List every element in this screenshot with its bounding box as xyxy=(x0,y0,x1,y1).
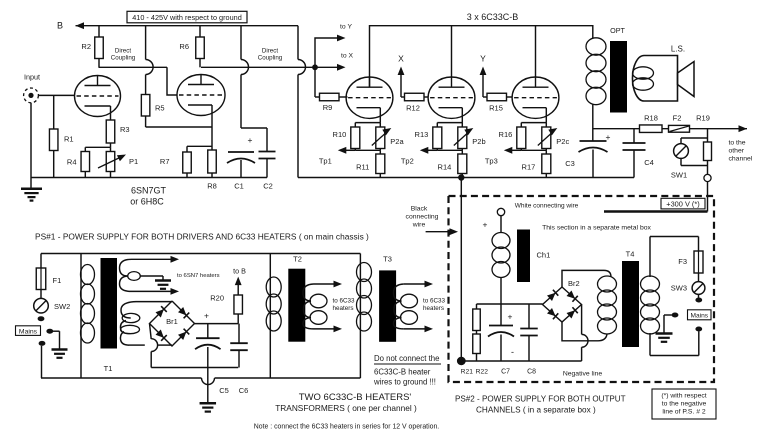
svg-text:SW2: SW2 xyxy=(54,302,70,311)
wire output feed rail xyxy=(298,177,634,179)
wire C5 to chassis ground xyxy=(207,368,209,404)
svg-text:P1: P1 xyxy=(129,157,138,166)
test point arrow Tp3 xyxy=(485,147,521,166)
tube U1 6C33C-B xyxy=(346,77,393,118)
resistor R4 xyxy=(67,152,90,178)
svg-text:3 x 6C33C-B: 3 x 6C33C-B xyxy=(467,12,519,22)
svg-text:Direct: Direct xyxy=(115,48,131,55)
svg-text:R19: R19 xyxy=(696,114,710,123)
transformer T3 core xyxy=(379,255,396,342)
svg-text:F3: F3 xyxy=(678,257,687,266)
wire B+ right drop to feed rail with hop xyxy=(298,26,305,178)
svg-text:White connecting wire: White connecting wire xyxy=(515,203,579,210)
resistor R1 xyxy=(49,95,73,177)
node junction feed/PS2 rail xyxy=(458,174,464,180)
transformer T3 primary xyxy=(357,254,372,379)
svg-text:R21: R21 xyxy=(461,368,474,375)
svg-text:R9: R9 xyxy=(323,103,333,112)
svg-text:R20: R20 xyxy=(210,294,224,303)
svg-text:Input: Input xyxy=(24,73,40,82)
capacitor C2 xyxy=(241,128,276,190)
svg-text:C5: C5 xyxy=(219,386,229,395)
svg-text:R10: R10 xyxy=(333,130,347,139)
fuse F1 xyxy=(36,254,61,290)
transformer T2 primary xyxy=(266,254,281,379)
label to the other channel xyxy=(729,140,753,163)
svg-text:C2: C2 xyxy=(263,181,273,190)
terminal +300V circle xyxy=(704,174,711,181)
svg-text:R16: R16 xyxy=(499,130,513,139)
switch SW2 xyxy=(34,290,71,314)
dashed enclosure PS2 box xyxy=(449,196,715,382)
svg-text:to the negative: to the negative xyxy=(662,401,707,408)
svg-text:Coupling: Coupling xyxy=(258,55,283,62)
label Mains box PS1 xyxy=(16,326,41,336)
svg-text:R6: R6 xyxy=(179,42,189,51)
svg-text:R8: R8 xyxy=(207,181,217,190)
resistor R14 xyxy=(438,150,467,177)
terminal mains L1 PS2 xyxy=(695,294,702,302)
svg-text:410 - 425V with respect to gro: 410 - 425V with respect to ground xyxy=(132,13,242,22)
cathode network wires U1 xyxy=(355,108,380,151)
svg-text:R7: R7 xyxy=(160,157,170,166)
svg-text:R4: R4 xyxy=(67,158,77,167)
svg-text:Br1: Br1 xyxy=(166,317,178,326)
capacitor C1 xyxy=(227,135,255,190)
svg-text:Tp1: Tp1 xyxy=(319,157,332,166)
label PS#2 title xyxy=(455,394,626,414)
resistor R12 xyxy=(401,93,429,112)
label box +300V xyxy=(661,198,705,209)
transformer T4 primary coil xyxy=(641,237,660,356)
svg-text:R3: R3 xyxy=(120,125,130,134)
svg-text:Ch1: Ch1 xyxy=(537,251,551,260)
svg-text:to 6C33: to 6C33 xyxy=(423,298,446,305)
svg-text:TWO 6C33C-B HEATERS': TWO 6C33C-B HEATERS' xyxy=(299,392,412,403)
transformer T2 core xyxy=(288,255,305,342)
switch SW3 xyxy=(671,273,705,294)
svg-text:Tp2: Tp2 xyxy=(401,157,414,166)
svg-text:SW1: SW1 xyxy=(671,171,687,180)
loudspeaker L.S. xyxy=(632,45,694,102)
inductor Ch1 choke xyxy=(492,216,550,326)
svg-text:T4: T4 xyxy=(626,250,635,259)
svg-text:to 6C33: to 6C33 xyxy=(333,298,356,305)
svg-text:R12: R12 xyxy=(406,104,420,113)
wire V2 plate drive line xyxy=(201,66,314,68)
wire PS1 negative bar xyxy=(151,367,238,369)
svg-text:R2: R2 xyxy=(81,42,91,51)
svg-text:OPT: OPT xyxy=(610,26,625,35)
svg-text:wires to ground !!!: wires to ground !!! xyxy=(373,378,436,387)
wire B+ drop to R5 with hop xyxy=(146,26,153,94)
resistor R2 xyxy=(81,26,103,68)
svg-text:to B: to B xyxy=(233,267,246,276)
svg-text:TRANSFORMERS ( one per channel: TRANSFORMERS ( one per channel ) xyxy=(275,403,417,413)
svg-text:F2: F2 xyxy=(673,114,682,123)
ground symbol T1 center tap xyxy=(140,276,171,289)
svg-text:F1: F1 xyxy=(53,276,62,285)
wire Br2 AC top to T4 xyxy=(562,270,611,287)
svg-text:to 6SN7 heaters: to 6SN7 heaters xyxy=(177,273,220,279)
tube V2 6SN7 triode B xyxy=(177,75,225,116)
svg-text:R13: R13 xyxy=(415,130,429,139)
svg-text:CHANNELS ( in a separate box ): CHANNELS ( in a separate box ) xyxy=(476,405,596,414)
svg-text:Mains: Mains xyxy=(691,313,709,320)
resistor R22 xyxy=(473,331,488,376)
terminal mains L2 PS1 xyxy=(39,341,46,378)
test point arrow Tp2 xyxy=(401,147,437,166)
svg-text:SW3: SW3 xyxy=(671,284,687,293)
inductor Ch1 core xyxy=(517,230,530,283)
wire +300V white lead xyxy=(604,182,708,212)
cathode network wires U2 xyxy=(437,108,462,151)
svg-text:+: + xyxy=(483,220,488,230)
potentiometer P2a xyxy=(372,127,405,149)
svg-text:C1: C1 xyxy=(234,181,244,190)
wire B+ drop to C1 with hop xyxy=(241,26,248,128)
svg-text:P2c: P2c xyxy=(556,137,569,146)
resistor R6 xyxy=(179,26,204,68)
transformer OPT primary coil xyxy=(586,38,606,141)
potentiometer P2b xyxy=(454,127,486,149)
wire negative riser to Br2 with hop xyxy=(582,305,588,362)
svg-text:-: - xyxy=(511,347,514,357)
wire R3 to R4/P1 junction xyxy=(85,147,110,151)
input jack J1 xyxy=(24,73,40,103)
rectifier bridge Br2 xyxy=(543,279,582,322)
svg-text:This section in a separate met: This section in a separate metal box xyxy=(542,225,651,232)
resistor R17 xyxy=(522,150,551,177)
wire PS1 top rail xyxy=(41,253,360,255)
svg-text:C3: C3 xyxy=(565,159,575,168)
resistor R19 xyxy=(696,114,711,161)
cathode network wires U3 xyxy=(521,108,546,151)
svg-text:to X: to X xyxy=(341,53,354,60)
transformer T4 secondary coil xyxy=(598,276,617,292)
node drive junction xyxy=(312,64,318,70)
test point arrow Tp1 xyxy=(319,147,355,166)
svg-text:+: + xyxy=(606,132,611,142)
resistor R3 xyxy=(106,106,129,147)
wire T4 primary top to F3 xyxy=(650,237,699,252)
node PS2 negative junction xyxy=(457,357,466,365)
resistor R5 xyxy=(141,95,164,128)
potentiometer P2c xyxy=(538,127,570,149)
svg-text:heaters: heaters xyxy=(333,305,354,312)
svg-text:R5: R5 xyxy=(155,104,165,113)
svg-text:X: X xyxy=(398,54,404,64)
wire V1 plate to grid of V2 (direct coupling) xyxy=(99,67,178,95)
ground symbol PS2 mains xyxy=(656,332,673,335)
capacitor C5 xyxy=(195,311,229,395)
label direct coupling 2 xyxy=(258,48,283,62)
svg-text:Negative line: Negative line xyxy=(563,370,603,377)
wire R19 to +300V terminal xyxy=(707,129,709,175)
wire Br1 positive bar xyxy=(195,323,239,325)
fuse F3 xyxy=(678,251,703,273)
wire PS2 negative line xyxy=(461,361,602,377)
svg-text:T3: T3 xyxy=(383,255,392,264)
tube V1 6SN7 triode A xyxy=(75,76,121,117)
wire black connecting rail to PS2 xyxy=(460,178,462,362)
svg-text:B: B xyxy=(57,21,63,31)
svg-text:R1: R1 xyxy=(64,135,74,144)
terminal PS2 positive circle xyxy=(483,208,505,229)
voltage label box 410-425V xyxy=(127,11,247,22)
wire PS1 bottom rail xyxy=(41,378,360,384)
wire PS2 positive bar xyxy=(477,303,543,305)
capacitor C7 xyxy=(488,312,514,376)
label footnote box xyxy=(652,389,716,419)
svg-text:R15: R15 xyxy=(489,104,503,113)
svg-text:PS#1 - POWER SUPPLY FOR BOTH D: PS#1 - POWER SUPPLY FOR BOTH DRIVERS AND… xyxy=(35,232,369,242)
resistor R15 xyxy=(483,93,512,112)
svg-text:R14: R14 xyxy=(438,163,452,172)
svg-text:heaters: heaters xyxy=(423,305,444,312)
wire output plate rail xyxy=(370,26,593,87)
ground symbol PS1 mains xyxy=(52,331,68,358)
wire ground bus xyxy=(31,103,267,178)
svg-text:or 6H8C: or 6H8C xyxy=(130,197,164,207)
svg-text:6C33C-B heater: 6C33C-B heater xyxy=(374,368,431,377)
node X arrow xyxy=(398,54,405,98)
winding T1 heater 6SN7 xyxy=(120,256,220,295)
label direct coupling 1 xyxy=(111,48,136,62)
ground symbol main xyxy=(21,178,42,201)
svg-text:Mains: Mains xyxy=(19,328,38,335)
svg-text:to Y: to Y xyxy=(340,24,352,31)
terminal mains earth PS1 xyxy=(46,329,59,334)
svg-text:R22: R22 xyxy=(476,368,489,375)
wire B+ top rail with arrow to B xyxy=(76,22,299,29)
capacitor C8 xyxy=(520,304,538,375)
terminal mains L1 PS1 xyxy=(38,316,45,321)
svg-text:Black: Black xyxy=(411,206,428,213)
svg-text:Coupling: Coupling xyxy=(111,55,136,62)
wire input to V1 grid xyxy=(39,94,76,96)
svg-text:R11: R11 xyxy=(356,163,369,172)
resistor R7 xyxy=(160,146,212,177)
wire B+ out line xyxy=(593,125,747,132)
tube U2 6C33C-B xyxy=(428,77,475,118)
svg-text:to the: to the xyxy=(729,140,746,147)
resistor R13 xyxy=(415,127,442,149)
svg-text:PS#2 - POWER SUPPLY FOR BOTH: PS#2 - POWER SUPPLY FOR BOTH OUTPUT xyxy=(455,394,626,403)
svg-text:+: + xyxy=(248,135,253,145)
svg-text:connecting: connecting xyxy=(406,214,439,221)
svg-text:(*) with respect: (*) with respect xyxy=(661,393,706,400)
transformer OPT core xyxy=(610,26,627,113)
capacitor C3 xyxy=(565,132,610,178)
svg-text:R17: R17 xyxy=(522,163,536,172)
tube U3 6C33C-B xyxy=(512,77,559,118)
resistor R9 xyxy=(315,67,348,112)
svg-text:T2: T2 xyxy=(293,255,302,264)
terminal mains earth PS2 xyxy=(664,313,678,334)
svg-text:wire: wire xyxy=(412,222,426,229)
wire R5 bottom to V2 cathode xyxy=(146,105,212,150)
label 6SN7GT or 6H8C xyxy=(130,186,166,207)
svg-text:+300 V (*): +300 V (*) xyxy=(666,200,699,209)
label Mains box PS2 xyxy=(688,310,712,320)
winding T1 rectifier secondary xyxy=(120,302,172,346)
terminal mains L2 PS2 xyxy=(650,327,702,356)
node Y arrow xyxy=(480,54,487,98)
svg-text:L.S.: L.S. xyxy=(671,45,685,54)
svg-text:C7: C7 xyxy=(501,368,510,375)
resistor R18 xyxy=(640,114,663,133)
resistor R10 xyxy=(333,127,360,149)
potentiometer P1 xyxy=(98,152,138,178)
svg-text:R18: R18 xyxy=(644,114,658,123)
label TWO 6C33C-B HEATERS xyxy=(275,392,417,413)
transformer T1 core xyxy=(101,258,118,373)
winding T2 heater xyxy=(303,281,355,333)
svg-text:+: + xyxy=(508,312,513,322)
fuse F2 xyxy=(669,114,690,133)
svg-text:Note : connect the 6C33 heater: Note : connect the 6C33 heaters in serie… xyxy=(254,424,439,431)
svg-text:other: other xyxy=(729,148,745,155)
svg-text:channel: channel xyxy=(729,156,753,163)
resistor R11 xyxy=(356,150,385,177)
transformer T1 primary xyxy=(81,254,95,379)
svg-text:C8: C8 xyxy=(527,368,536,375)
resistor R8 xyxy=(207,150,217,190)
svg-text:C4: C4 xyxy=(644,158,654,167)
label do not connect warning xyxy=(373,354,441,387)
svg-text:+: + xyxy=(204,311,209,321)
svg-text:T1: T1 xyxy=(104,364,113,373)
winding T3 heater xyxy=(394,281,446,333)
label black connecting wire xyxy=(406,206,458,236)
svg-text:P2a: P2a xyxy=(390,137,404,146)
svg-text:Br2: Br2 xyxy=(568,279,580,288)
capacitor C4 xyxy=(623,129,654,178)
arrow to Y xyxy=(315,24,352,68)
ground symbol PS1 chassis xyxy=(200,402,217,405)
wire Br2 AC bottom to T4 xyxy=(562,322,607,341)
arrow to X xyxy=(315,53,354,71)
wire Br1 negative lead with hop xyxy=(150,324,158,368)
svg-text:Y: Y xyxy=(480,54,486,64)
svg-text:C6: C6 xyxy=(239,386,249,395)
resistor R20 xyxy=(210,277,242,324)
resistor R21 xyxy=(461,304,481,375)
svg-text:Direct: Direct xyxy=(262,48,278,55)
capacitor C6 xyxy=(230,324,248,395)
svg-text:Tp3: Tp3 xyxy=(485,157,498,166)
svg-text:P2b: P2b xyxy=(472,137,485,146)
svg-text:line of P.S. # 2: line of P.S. # 2 xyxy=(662,409,706,416)
rectifier bridge Br1 xyxy=(150,301,195,346)
svg-text:Do not connect the: Do not connect the xyxy=(374,354,439,363)
svg-text:6SN7GT: 6SN7GT xyxy=(131,186,167,196)
switch SW1 xyxy=(671,138,708,180)
transformer T4 core xyxy=(622,250,639,348)
resistor R16 xyxy=(499,127,526,149)
